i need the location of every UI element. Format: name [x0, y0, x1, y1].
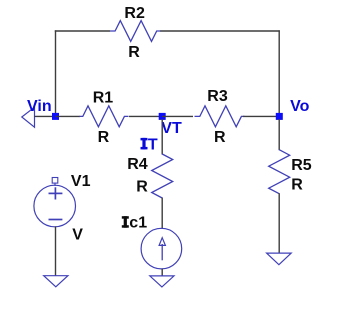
resistor R3: [195, 106, 245, 127]
label R5: [291, 157, 312, 174]
node Vin (junction square): [52, 113, 59, 120]
svg-text:R: R: [128, 44, 140, 61]
voltage source V1 (circle): [34, 185, 76, 227]
resistor R2: [110, 21, 161, 42]
ground (under V1): [44, 276, 68, 287]
V1 plus sign: [49, 187, 63, 199]
svg-text:R4: R4: [127, 156, 148, 173]
ground (under R5): [267, 253, 292, 265]
current source Ic1 arrow: [159, 238, 165, 261]
wire: right riser from top to Vo node: [278, 30, 280, 116]
resistor R5: [269, 150, 290, 194]
net label IT: [141, 136, 158, 153]
wire: V1 to ground: [55, 226, 57, 275]
svg-text:T: T: [148, 136, 158, 153]
wire: Vin port to Vin node: [35, 115, 56, 117]
wire: left riser from Vin node to top: [55, 30, 57, 116]
svg-text:R: R: [136, 178, 148, 195]
value label R (of R5): [291, 176, 303, 193]
value label R (of R4): [136, 178, 148, 195]
wire: R3 to Vo node: [243, 115, 279, 117]
resistor R4: [152, 154, 173, 198]
node Vo (junction square): [276, 113, 283, 120]
label R3: [207, 88, 228, 105]
svg-text:R1: R1: [93, 89, 114, 106]
svg-text:R2: R2: [124, 5, 145, 22]
terminal square (top of V1): [52, 178, 58, 184]
wire: top horizontal right segment: [160, 30, 280, 32]
value label R (of R2): [128, 44, 140, 61]
wire: VT node to R3: [162, 115, 193, 117]
svg-text:c1: c1: [129, 215, 147, 232]
svg-text:VT: VT: [161, 120, 182, 137]
svg-text:V1: V1: [71, 173, 91, 190]
V1 minus sign: [49, 219, 63, 221]
svg-text:R3: R3: [207, 88, 228, 105]
current source Ic1 (circle): [141, 228, 182, 269]
label R2: [124, 5, 145, 22]
value label V (of V1): [72, 226, 83, 243]
svg-text:R: R: [98, 129, 110, 146]
wire: Vo node down to R5: [278, 119, 280, 150]
net label Vin: [27, 98, 52, 115]
wire: R5 down to ground: [278, 193, 280, 253]
node VT (junction square): [159, 113, 166, 120]
wire: top horizontal left segment: [55, 30, 110, 32]
value label R (of R1): [98, 129, 110, 146]
port flag Vin: [22, 107, 35, 127]
svg-text:R: R: [291, 176, 303, 193]
wire: Vin node to R1: [56, 115, 81, 117]
wire: Ic1 to ground stub: [161, 269, 163, 276]
svg-text:R5: R5: [291, 157, 312, 174]
svg-text:Vin: Vin: [27, 98, 52, 115]
svg-text:V: V: [72, 226, 83, 243]
svg-text:R: R: [214, 129, 226, 146]
net label VT: [161, 120, 182, 137]
wire: V1 terminal stub: [54, 183, 56, 186]
svg-text:Vo: Vo: [290, 98, 309, 115]
wire: VT node down to R4: [161, 119, 163, 155]
wire: R4 to current source Ic1: [161, 198, 163, 230]
ground (under Ic1): [150, 276, 174, 287]
label Ic1: [122, 215, 147, 232]
net label Vo: [290, 98, 309, 115]
wire: R1 to VT node: [129, 115, 162, 117]
value label R (of R3): [214, 129, 226, 146]
resistor R1: [80, 106, 129, 127]
label R1: [93, 89, 114, 106]
label R4: [127, 156, 148, 173]
label V1: [71, 173, 91, 190]
